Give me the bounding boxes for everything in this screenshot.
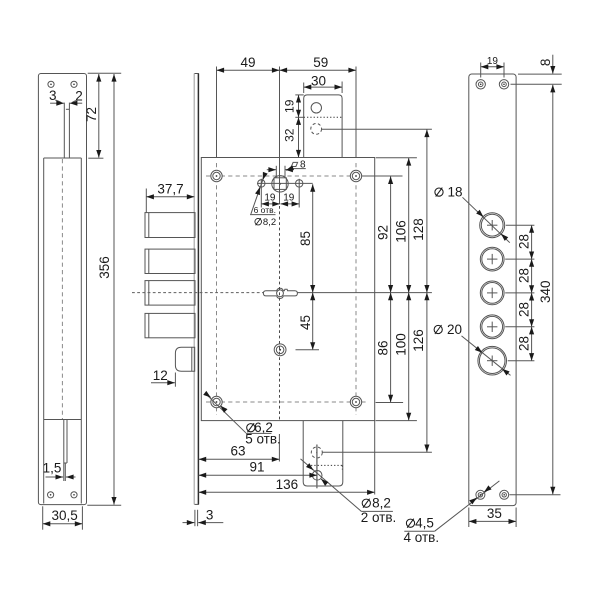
svg-text:19: 19 (283, 192, 295, 203)
svg-text:4 отв.: 4 отв. (404, 530, 440, 545)
svg-text:30,5: 30,5 (51, 508, 77, 523)
svg-text:2 отв.: 2 отв. (361, 510, 397, 525)
svg-text:30: 30 (311, 73, 326, 88)
svg-text:72: 72 (84, 107, 99, 122)
svg-text:106: 106 (393, 220, 408, 243)
svg-text:100: 100 (393, 333, 408, 356)
svg-text:8: 8 (538, 59, 553, 67)
svg-text:356: 356 (97, 256, 112, 279)
svg-text:28: 28 (517, 302, 532, 317)
svg-text:136: 136 (276, 477, 299, 492)
svg-text:28: 28 (517, 234, 532, 249)
svg-text:19: 19 (283, 99, 297, 113)
svg-text:28: 28 (517, 268, 532, 283)
svg-text:37,7: 37,7 (157, 181, 183, 196)
svg-text:85: 85 (298, 231, 313, 246)
svg-text:32: 32 (283, 128, 297, 142)
svg-text:1,5: 1,5 (43, 461, 62, 476)
svg-text:4,5: 4,5 (415, 516, 434, 531)
svg-text:340: 340 (538, 280, 553, 303)
svg-text:45: 45 (298, 315, 313, 330)
svg-text:19: 19 (264, 193, 276, 204)
svg-text:91: 91 (249, 460, 264, 475)
svg-text:92: 92 (376, 225, 391, 240)
svg-text:49: 49 (240, 55, 255, 70)
svg-text:2: 2 (75, 88, 83, 103)
svg-text:126: 126 (411, 329, 426, 352)
svg-text:86: 86 (376, 340, 391, 355)
svg-text:63: 63 (230, 443, 245, 458)
svg-text:20: 20 (447, 322, 462, 337)
svg-text:59: 59 (313, 55, 328, 70)
svg-text:28: 28 (517, 336, 532, 351)
svg-text:8,2: 8,2 (372, 496, 391, 511)
svg-text:19: 19 (487, 56, 499, 67)
svg-text:18: 18 (447, 185, 462, 200)
svg-text:35: 35 (487, 506, 502, 521)
svg-text:8,2: 8,2 (263, 217, 276, 228)
svg-text:12: 12 (153, 368, 168, 383)
svg-text:5 отв.: 5 отв. (245, 431, 281, 446)
svg-text:3: 3 (206, 508, 214, 523)
svg-text:128: 128 (411, 218, 426, 241)
svg-text:3: 3 (49, 88, 57, 103)
svg-text:6 отв.: 6 отв. (254, 205, 276, 215)
